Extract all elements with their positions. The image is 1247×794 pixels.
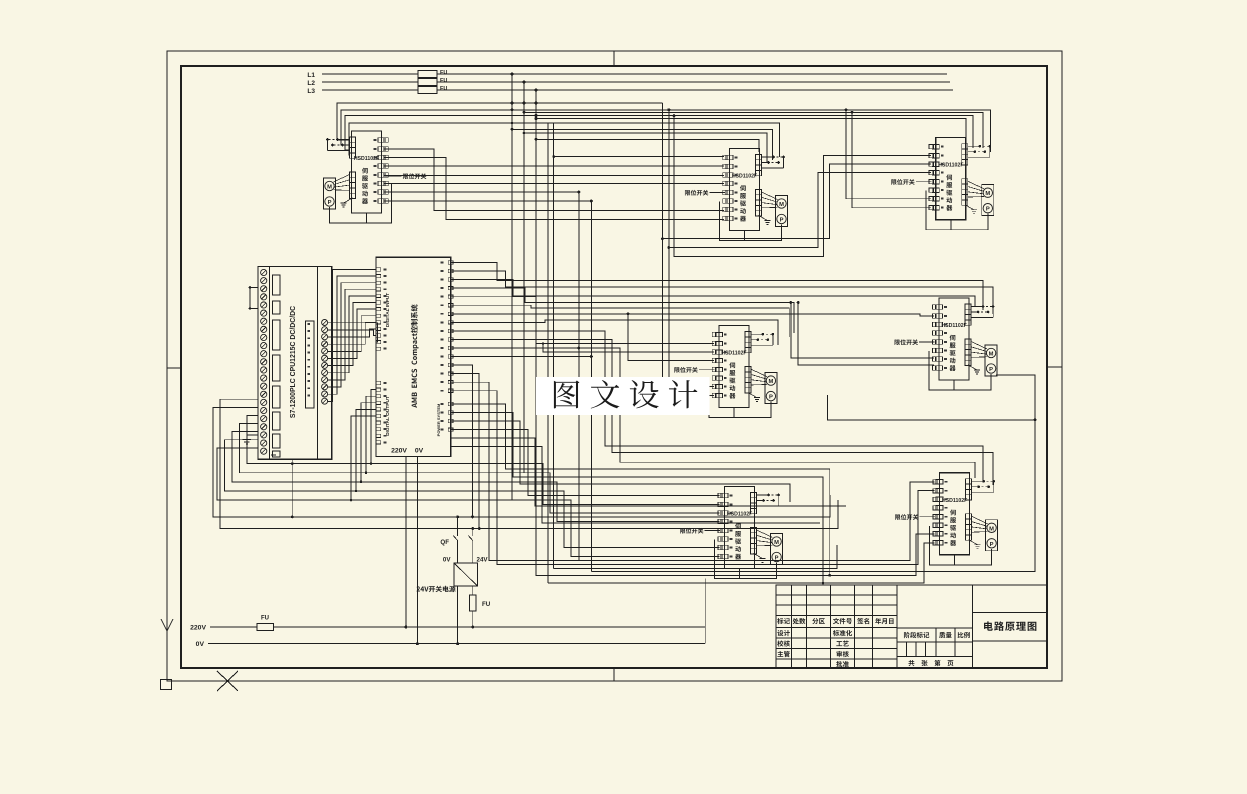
label 限位开关 of A7 xyxy=(895,514,918,520)
label 限位开关 of A3 (Z axis) xyxy=(891,179,914,185)
wire p16 xyxy=(451,391,935,565)
QF blade 1 xyxy=(453,536,457,541)
wire w2 A1->A2 B xyxy=(384,158,724,220)
wire p18 xyxy=(451,413,823,583)
PLC left screw terminals xyxy=(261,269,267,275)
ground of A1 (X axis) xyxy=(344,198,353,203)
wire plc-in 5 xyxy=(328,296,377,373)
wire x1 xyxy=(451,438,846,506)
svg-text:S7-1200PLC CPU1215C DC/DC/DC: S7-1200PLC CPU1215C DC/DC/DC xyxy=(290,306,297,418)
motor M of A3 (Z axis) xyxy=(982,185,994,216)
junction xyxy=(535,102,538,105)
svg-text:M: M xyxy=(327,185,332,191)
wire p12 xyxy=(451,356,592,358)
wire q2 xyxy=(451,339,993,485)
driver A6 pins xyxy=(721,493,728,497)
junction xyxy=(511,108,514,111)
driver A1 (X axis) connector strip upper xyxy=(350,137,356,142)
registration square bottom-left xyxy=(161,680,172,690)
phase rail L1 xyxy=(322,73,947,75)
wire p7 to A5 pin2 xyxy=(451,314,934,316)
title block header labels xyxy=(777,618,790,624)
fold mark Y left border xyxy=(161,619,167,631)
label 限位开关 of A4 xyxy=(674,367,697,373)
wire p17 xyxy=(451,404,830,575)
PLC label strip inner xyxy=(306,321,315,408)
PLC terminal group boxes xyxy=(273,275,281,295)
wire f2 xyxy=(852,112,931,207)
junction xyxy=(523,111,526,114)
controller name text xyxy=(411,304,419,407)
ground of A6 xyxy=(754,554,763,559)
svg-text:M: M xyxy=(779,202,784,208)
wire s5 A6 B xyxy=(217,448,720,557)
wire loop of A7 xyxy=(930,526,992,565)
label 限位开关 of A1 (X axis) xyxy=(403,173,426,179)
wire ctrl-out 5 xyxy=(351,416,376,500)
ground of A4 xyxy=(748,393,757,398)
wire rail r1 xyxy=(213,407,830,517)
wire w4 A1->A2 pin3 xyxy=(384,175,724,177)
wire rails end riser xyxy=(704,579,706,644)
phase rail L3 xyxy=(322,89,953,91)
wire mra A5 A xyxy=(791,303,934,359)
driver A5 connector strip upper xyxy=(965,304,971,309)
svg-text:L1: L1 xyxy=(307,72,315,79)
wire q3 xyxy=(451,348,975,478)
wire p5 xyxy=(451,297,714,344)
svg-text:0V: 0V xyxy=(443,557,451,564)
wire ctrl-out 1 xyxy=(371,390,376,464)
wire plc-in 9 xyxy=(328,322,377,344)
svg-text:P: P xyxy=(769,395,773,401)
wire f1 xyxy=(846,110,931,199)
driver A7 HSD1102F block xyxy=(940,473,970,555)
svg-text:P: P xyxy=(990,542,994,548)
ground of A7 xyxy=(969,540,978,545)
driver A3 (Z axis) connector strip lower xyxy=(962,179,968,184)
watermark box xyxy=(536,377,710,415)
PLC terminal number labels xyxy=(308,323,311,325)
controller digital input pin stubs xyxy=(376,268,381,271)
limit switches of A6 xyxy=(757,494,769,496)
wire c3 xyxy=(345,116,973,150)
wire m1 xyxy=(349,123,780,157)
svg-text:24V: 24V xyxy=(477,557,489,564)
wire big right loop xyxy=(591,375,1035,572)
svg-text:0V: 0V xyxy=(415,448,424,455)
wire plc-in 10 xyxy=(328,329,377,337)
junction on phase rail xyxy=(523,81,526,84)
wire g2 xyxy=(451,271,993,314)
wire s4 A6 A xyxy=(224,440,719,548)
wire loop2 xyxy=(669,110,931,248)
PLC PE ground symbol xyxy=(271,454,276,456)
breaker QF pole 1 xyxy=(457,517,459,536)
wire 0V riser xyxy=(416,457,418,644)
wire loop of A3 (Z axis) xyxy=(926,191,988,230)
fuse FU mains xyxy=(257,623,273,630)
wire loop of A2 (Y axis) xyxy=(720,202,782,241)
wire plc-in 7 xyxy=(328,309,377,358)
motor M of A5 xyxy=(985,345,997,376)
junction xyxy=(535,117,538,120)
svg-text:M: M xyxy=(989,526,994,532)
trunk x524 xyxy=(523,82,525,473)
wire n4 xyxy=(451,320,778,345)
wire n1 xyxy=(451,288,794,333)
junction xyxy=(535,114,538,117)
wire s2 xyxy=(239,424,719,514)
svg-text:FU: FU xyxy=(261,616,269,622)
motor M of A1 (X axis) xyxy=(324,178,336,209)
svg-text:FU: FU xyxy=(482,601,491,608)
trunk x512 xyxy=(511,74,513,500)
breaker QF pole 2 xyxy=(472,529,474,537)
driver A4 HSD1102F block xyxy=(719,326,749,408)
controller U2 AMB EMCS block xyxy=(376,257,451,456)
phase rail L2 xyxy=(322,81,950,83)
wire loop1 xyxy=(662,103,930,239)
encoder P of A4 xyxy=(766,391,775,400)
wire plc-in 6 xyxy=(328,303,377,366)
driver A6 HSD1102F block xyxy=(725,487,755,569)
junction xyxy=(523,102,526,105)
driver A2 (Y axis) HSD1102F block xyxy=(730,149,760,231)
wire loop3 to A3 xyxy=(674,116,931,257)
wire ctrl-out 2 xyxy=(366,396,376,473)
wire loop of A6 xyxy=(715,540,777,579)
wire p14 xyxy=(451,374,479,529)
fuse FU on L1 xyxy=(418,71,437,78)
ground of A5 xyxy=(968,365,977,370)
svg-text:POWER SYSTEM: POWER SYSTEM xyxy=(436,403,441,436)
trunk x578.9 xyxy=(578,192,580,561)
PLC bottom dropper to rail xyxy=(291,459,293,517)
wire p19 xyxy=(451,421,790,502)
wire loop of A5 xyxy=(929,351,991,390)
wire w9 A4 pin4 xyxy=(628,314,714,361)
wire 220V riser xyxy=(405,457,407,628)
QF blade 2 xyxy=(468,536,472,541)
encoder P of A2 (Y axis) xyxy=(777,214,786,223)
encoder P of A7 xyxy=(987,539,996,548)
ground of A2 (Y axis) xyxy=(759,216,768,221)
driver A2 (Y axis) connector strip upper xyxy=(756,155,762,160)
centre mark left xyxy=(167,367,181,369)
fuse FU 24V xyxy=(470,595,476,611)
svg-text:L2: L2 xyxy=(307,80,315,87)
cross mark X on bottom border xyxy=(217,671,238,691)
driver A7 connector strip upper xyxy=(966,479,972,484)
label 限位开关 of A5 xyxy=(895,339,918,345)
svg-text:M: M xyxy=(989,352,994,358)
wire p13 xyxy=(451,365,473,517)
driver A7 pins xyxy=(936,480,943,484)
outer border frame xyxy=(167,51,1062,681)
wire g3 xyxy=(451,280,975,306)
wire plc link xyxy=(249,288,251,309)
wire w5 A1->A2 pin4 xyxy=(384,183,724,185)
wire g1 xyxy=(451,263,983,311)
driver A3 (Z axis) connector strip upper xyxy=(962,144,968,149)
svg-text:FU: FU xyxy=(440,86,447,92)
limit switches of A4 xyxy=(751,333,763,335)
wire a1 A4 A xyxy=(662,239,714,387)
wire bm right xyxy=(554,545,837,569)
wire x2 xyxy=(451,447,820,523)
wire c4 xyxy=(536,119,966,145)
trunk x553 xyxy=(553,124,555,569)
svg-text:L3: L3 xyxy=(307,88,315,95)
wire br_b A7 B xyxy=(548,543,935,583)
svg-text:P: P xyxy=(986,207,990,213)
wire plc-in 4 xyxy=(328,289,377,380)
svg-text:FU: FU xyxy=(440,70,447,76)
wire a2 A4 B xyxy=(669,248,714,396)
motor M of A2 (Y axis) xyxy=(776,196,788,227)
wire p20 xyxy=(451,430,720,496)
motor M of A6 xyxy=(771,534,783,565)
wire mrb A5 B xyxy=(798,303,934,366)
wire w3 A1->A2 pin2 xyxy=(384,165,724,167)
svg-text:0V: 0V xyxy=(196,641,205,648)
PLC U1 S7-1200PLC CPU1215C block xyxy=(258,267,332,460)
wire p6 xyxy=(543,344,714,353)
svg-text:220V: 220V xyxy=(190,625,206,632)
wire plc-in 3 xyxy=(328,283,377,387)
controller right pin stubs xyxy=(448,261,453,264)
controller digital output pin stubs xyxy=(376,381,381,384)
limit switches of A2 (Y axis) xyxy=(762,156,774,158)
junction on phase rail xyxy=(511,73,514,76)
svg-text:FU: FU xyxy=(440,78,447,84)
svg-text:QF: QF xyxy=(440,539,449,546)
driver A4 connector strip upper xyxy=(745,332,751,337)
encoder P of A3 (Z axis) xyxy=(983,204,992,213)
wire plc-in 8 xyxy=(328,316,377,352)
limit switches of A3 (Z axis) xyxy=(968,145,980,147)
svg-text:220V: 220V xyxy=(391,448,407,455)
encoder P of A5 xyxy=(986,364,995,373)
junction xyxy=(511,102,514,105)
limit switches of A5 xyxy=(971,306,983,308)
wire loop of A1 (X axis) xyxy=(330,184,392,223)
junction on phase rail xyxy=(535,89,538,92)
wire w1 A1->A2 A xyxy=(384,149,724,211)
svg-text:M: M xyxy=(774,540,779,546)
wire m2 xyxy=(512,129,773,160)
wire n2 xyxy=(451,305,790,337)
wire loop of A4 xyxy=(709,379,771,418)
mains 220V rail xyxy=(210,626,705,628)
driver A5 pins xyxy=(936,305,943,309)
PLC earth ground xyxy=(247,434,258,436)
trunk x548 xyxy=(547,124,549,584)
driver A1 (X axis) pins xyxy=(378,138,385,142)
trunk x591.4 xyxy=(590,201,592,572)
encoder P of A6 xyxy=(772,552,781,561)
controller pin number labels xyxy=(384,269,387,271)
PLC terminal strip divider xyxy=(269,267,271,460)
drawing title 电路原理图 xyxy=(984,621,1036,631)
limit switches of A7 xyxy=(972,480,984,482)
driver A5 connector strip lower xyxy=(965,339,971,344)
wire q1 xyxy=(451,331,983,481)
driver A2 (Y axis) connector strip lower xyxy=(756,190,762,195)
wire w7 xyxy=(384,200,591,202)
centre mark bottom xyxy=(613,668,615,681)
wire s3 xyxy=(232,432,720,522)
PLC right screw terminals xyxy=(322,320,328,326)
fuse FU on L3 xyxy=(418,87,437,94)
wire PSU 0V xyxy=(457,586,459,644)
wire c2 xyxy=(524,112,983,148)
driver A4 pins xyxy=(715,332,722,336)
driver A3 (Z axis) HSD1102F block xyxy=(936,138,966,220)
driver A4 connector strip lower xyxy=(745,367,751,372)
inner border frame xyxy=(181,66,1047,668)
ground of A3 (Z axis) xyxy=(965,205,974,210)
label 限位开关 of A6 xyxy=(680,528,703,534)
wire w6 xyxy=(384,191,579,193)
driver A1 (X axis) connector strip lower xyxy=(350,172,356,177)
watermark text xyxy=(554,381,579,409)
wire s1 xyxy=(247,415,720,504)
driver A5 HSD1102F block xyxy=(939,298,969,380)
motor M of A7 xyxy=(986,520,998,551)
wire m4 xyxy=(536,139,759,152)
wire plc-in 2 xyxy=(328,276,377,394)
junction xyxy=(667,108,670,111)
svg-text:P: P xyxy=(780,218,784,224)
svg-text:P: P xyxy=(989,367,993,373)
label 限位开关 of A2 (Y axis) xyxy=(685,190,708,196)
title block table xyxy=(776,585,1047,669)
driver A7 connector strip lower xyxy=(966,514,972,519)
driver A2 (Y axis) pins xyxy=(726,155,733,159)
svg-text:M: M xyxy=(768,379,773,385)
limit switches of A1 (X axis) xyxy=(338,139,350,141)
wire plc-in 12 xyxy=(328,323,378,342)
wire c1 xyxy=(341,110,990,152)
wire ctrl-out 3 xyxy=(361,403,376,482)
PLC right strip divider xyxy=(317,267,319,460)
wire w8 A2 pin1 xyxy=(554,156,725,158)
wire PSU out xyxy=(472,586,474,595)
motor M of A4 xyxy=(765,373,777,404)
wire cA xyxy=(337,103,662,140)
driver A1 (X axis) HSD1102F block xyxy=(352,131,382,213)
driver A6 connector strip lower xyxy=(751,528,757,533)
wire bl2 xyxy=(827,395,1035,420)
wire ctrl-out 4 xyxy=(356,409,376,491)
mains 0V rail xyxy=(208,643,705,645)
wire plc-in 11 xyxy=(328,330,377,336)
wire plc-in 1 xyxy=(328,270,377,402)
driver A3 (Z axis) pins xyxy=(932,145,939,149)
wire br_a A7 A xyxy=(536,534,935,576)
trunk x536 xyxy=(535,90,537,575)
centre mark right xyxy=(1047,366,1062,368)
wire p15 xyxy=(451,382,935,560)
centre mark top xyxy=(613,51,615,66)
wire m3 xyxy=(524,133,767,163)
fuse FU on L2 xyxy=(418,79,437,86)
24V switching power supply xyxy=(454,563,478,586)
encoder P of A1 (X axis) xyxy=(325,197,334,206)
svg-text:M: M xyxy=(985,191,990,197)
wire rail r2 xyxy=(220,399,838,528)
svg-text:P: P xyxy=(328,200,332,206)
driver A6 connector strip upper xyxy=(751,493,757,498)
